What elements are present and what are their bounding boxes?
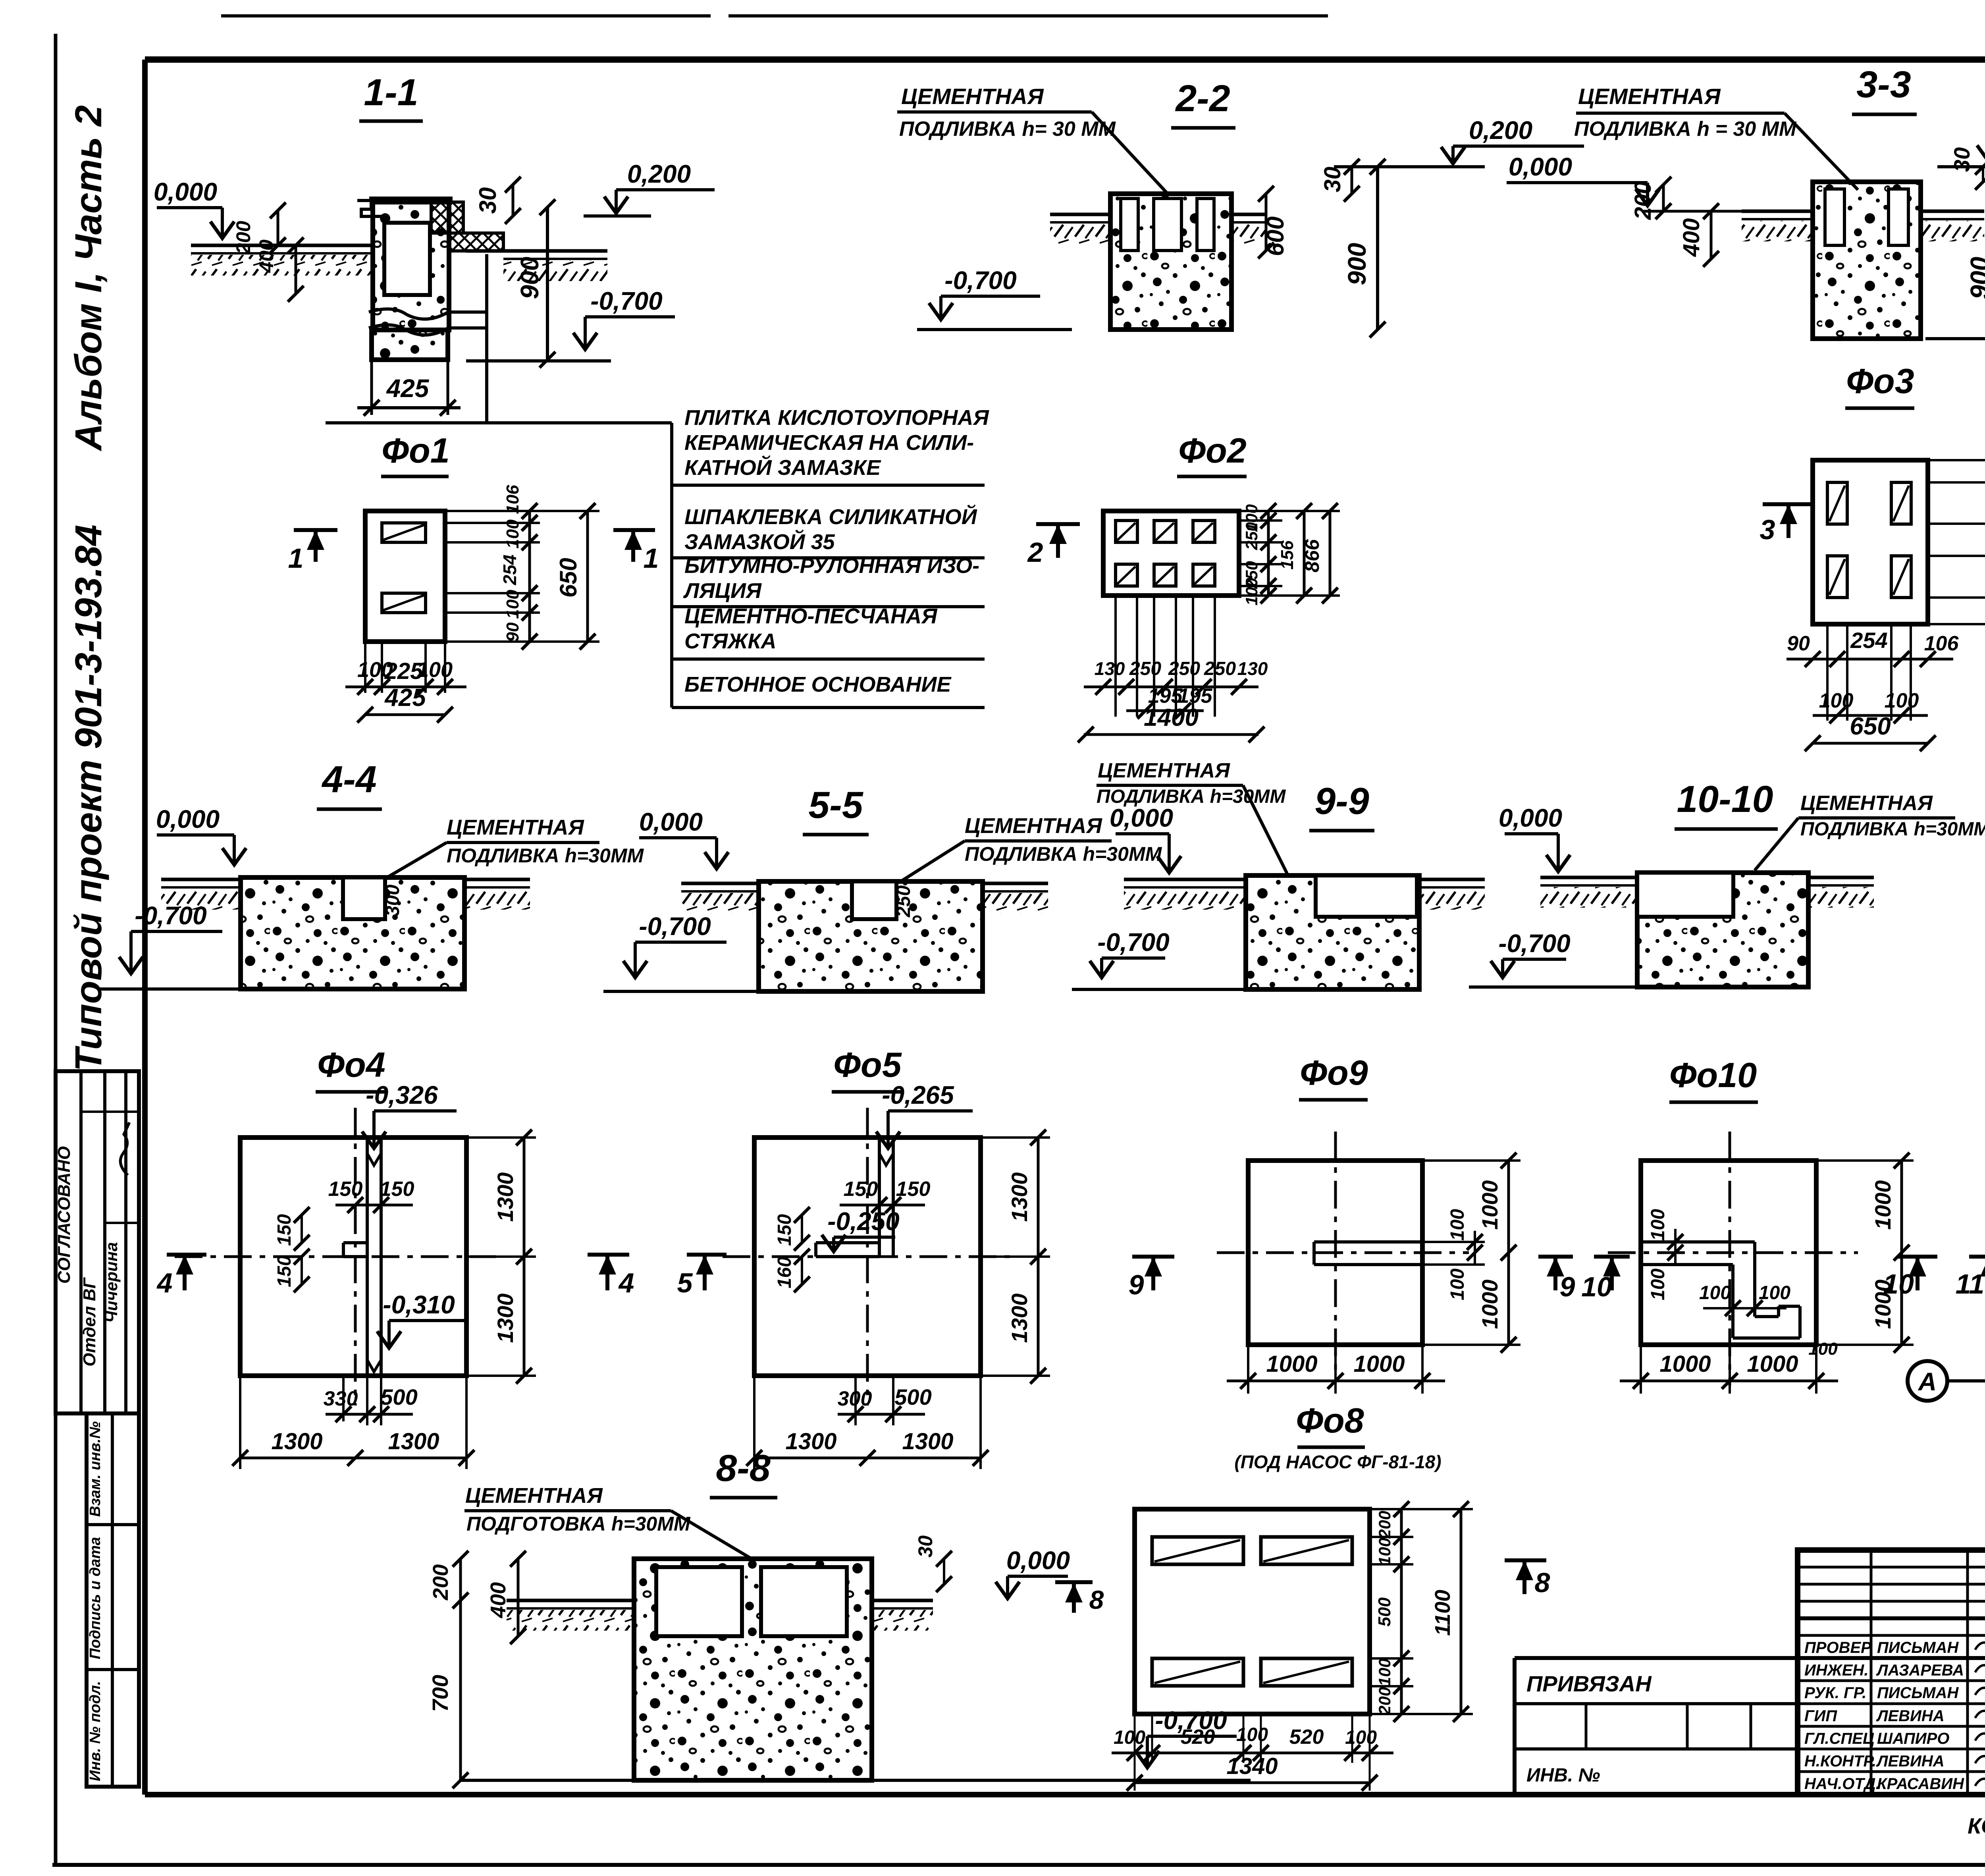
- svg-text:10: 10: [1581, 1271, 1612, 1302]
- svg-text:1000: 1000: [1477, 1280, 1502, 1329]
- svg-text:Фо5: Фо5: [833, 1045, 902, 1084]
- svg-text:100: 100: [1345, 1727, 1377, 1748]
- svg-text:650: 650: [555, 558, 582, 598]
- svg-text:Фо4: Фо4: [317, 1045, 385, 1084]
- svg-text:КРАСАВИН: КРАСАВИН: [1877, 1775, 1964, 1793]
- svg-text:8: 8: [1535, 1567, 1550, 1598]
- svg-text:9: 9: [1129, 1269, 1144, 1300]
- svg-text:1300: 1300: [1007, 1172, 1032, 1222]
- svg-text:90: 90: [503, 622, 522, 642]
- svg-text:250: 250: [893, 885, 914, 918]
- svg-text:ШПАКЛЕВКА СИЛИКАТНОЙ: ШПАКЛЕВКА СИЛИКАТНОЙ: [684, 504, 977, 529]
- svg-text:300: 300: [382, 885, 403, 916]
- svg-text:ЦЕМЕНТНАЯ: ЦЕМЕНТНАЯ: [1098, 759, 1230, 782]
- svg-text:254: 254: [1850, 628, 1887, 653]
- svg-text:3-3: 3-3: [1856, 64, 1911, 106]
- svg-text:ПИСЬМАН: ПИСЬМАН: [1877, 1639, 1959, 1656]
- svg-text:-0,700: -0,700: [1097, 928, 1169, 956]
- svg-text:БИТУМНО-РУЛОННАЯ ИЗО-: БИТУМНО-РУЛОННАЯ ИЗО-: [684, 554, 979, 578]
- svg-text:900: 900: [1965, 257, 1985, 299]
- svg-text:Альбом I, Часть 2: Альбом I, Часть 2: [67, 105, 110, 451]
- svg-text:Фо9: Фо9: [1300, 1053, 1368, 1092]
- svg-text:1400: 1400: [1144, 704, 1199, 731]
- svg-text:СОГЛАСОВАНО: СОГЛАСОВАНО: [54, 1146, 74, 1284]
- svg-text:150: 150: [274, 1255, 295, 1287]
- svg-text:30: 30: [914, 1535, 937, 1558]
- svg-text:ПОДЛИВКА h=30ММ: ПОДЛИВКА h=30ММ: [447, 844, 644, 867]
- svg-text:100: 100: [1114, 1727, 1145, 1748]
- svg-text:ЦЕМЕНТНАЯ: ЦЕМЕНТНАЯ: [901, 84, 1044, 109]
- svg-text:650: 650: [1850, 713, 1891, 740]
- svg-text:200: 200: [232, 221, 254, 255]
- svg-text:100: 100: [503, 519, 522, 549]
- svg-text:100: 100: [1885, 689, 1919, 712]
- svg-text:10: 10: [1883, 1269, 1914, 1300]
- svg-text:1340: 1340: [1226, 1753, 1278, 1779]
- svg-text:РУК. ГР.: РУК. ГР.: [1804, 1684, 1866, 1702]
- svg-text:А: А: [1918, 1367, 1937, 1396]
- svg-text:5-5: 5-5: [808, 784, 863, 826]
- svg-text:-0,700: -0,700: [944, 266, 1016, 295]
- svg-text:ПОДЛИВКА h = 30 ММ: ПОДЛИВКА h = 30 ММ: [1574, 118, 1797, 141]
- svg-text:130: 130: [1095, 658, 1125, 679]
- svg-text:ЛЕВИНА: ЛЕВИНА: [1876, 1753, 1945, 1770]
- svg-text:5: 5: [677, 1267, 693, 1298]
- svg-text:0,200: 0,200: [627, 160, 691, 188]
- svg-text:НАЧ.ОТД.: НАЧ.ОТД.: [1804, 1775, 1880, 1793]
- svg-text:-0,700: -0,700: [1498, 929, 1570, 958]
- svg-text:ПИСЬМАН: ПИСЬМАН: [1877, 1684, 1959, 1702]
- svg-text:Фо2: Фо2: [1178, 431, 1246, 470]
- svg-text:100: 100: [1236, 1724, 1268, 1745]
- svg-text:400: 400: [1679, 218, 1704, 257]
- svg-text:Взам. инв.№: Взам. инв.№: [87, 1421, 104, 1517]
- svg-text:900: 900: [515, 257, 544, 299]
- svg-text:0,000: 0,000: [1509, 152, 1572, 181]
- svg-text:0,000: 0,000: [156, 805, 220, 833]
- svg-text:100: 100: [1447, 1269, 1468, 1300]
- svg-text:ЛЕВИНА: ЛЕВИНА: [1876, 1707, 1945, 1725]
- svg-text:30: 30: [1949, 147, 1974, 172]
- svg-text:200: 200: [429, 1564, 453, 1600]
- svg-text:500: 500: [1375, 1597, 1394, 1627]
- svg-text:9-9: 9-9: [1314, 780, 1369, 822]
- svg-text:СТЯЖКА: СТЯЖКА: [684, 629, 777, 653]
- svg-text:Фо8: Фо8: [1296, 1401, 1364, 1440]
- svg-text:700: 700: [428, 1675, 453, 1712]
- svg-text:400: 400: [486, 1582, 510, 1618]
- svg-text:1100: 1100: [1431, 1590, 1455, 1636]
- svg-text:ПРОВЕР: ПРОВЕР: [1804, 1639, 1871, 1656]
- svg-text:-0,326: -0,326: [366, 1081, 438, 1109]
- svg-text:0,000: 0,000: [1006, 1546, 1070, 1575]
- svg-text:1300: 1300: [388, 1429, 439, 1454]
- svg-text:250: 250: [1168, 658, 1200, 679]
- svg-text:100: 100: [1648, 1269, 1669, 1300]
- svg-text:ЦЕМЕНТНАЯ: ЦЕМЕНТНАЯ: [447, 816, 584, 839]
- svg-text:1000: 1000: [1266, 1351, 1317, 1377]
- svg-text:ЛАЗАРЕВА: ЛАЗАРЕВА: [1876, 1662, 1964, 1679]
- svg-text:3: 3: [1760, 514, 1775, 545]
- svg-text:1300: 1300: [785, 1429, 836, 1454]
- svg-text:200: 200: [1630, 181, 1656, 220]
- svg-text:30: 30: [1320, 167, 1345, 193]
- svg-text:ЦЕМЕНТНАЯ: ЦЕМЕНТНАЯ: [965, 814, 1102, 838]
- svg-text:-0,310: -0,310: [383, 1290, 455, 1319]
- svg-text:254: 254: [499, 555, 520, 586]
- svg-text:156: 156: [1278, 540, 1297, 570]
- svg-text:250: 250: [1129, 658, 1161, 679]
- svg-text:Подпись и дата: Подпись и дата: [87, 1537, 104, 1659]
- svg-text:Отдел ВГ: Отдел ВГ: [80, 1277, 99, 1366]
- svg-text:100: 100: [1819, 689, 1854, 712]
- svg-text:300: 300: [838, 1387, 872, 1410]
- svg-text:100: 100: [1808, 1339, 1838, 1359]
- svg-text:425: 425: [386, 374, 430, 403]
- svg-text:4: 4: [618, 1267, 634, 1298]
- svg-text:150: 150: [774, 1214, 795, 1246]
- svg-text:866: 866: [1301, 539, 1323, 573]
- svg-text:250: 250: [1242, 522, 1261, 550]
- svg-text:-0,265: -0,265: [882, 1081, 954, 1109]
- svg-text:ПЛИТКА КИСЛОТОУПОРНАЯ: ПЛИТКА КИСЛОТОУПОРНАЯ: [684, 406, 989, 430]
- svg-text:0,000: 0,000: [1110, 804, 1173, 832]
- svg-text:520: 520: [1289, 1726, 1324, 1749]
- svg-text:ЦЕМЕНТНАЯ: ЦЕМЕНТНАЯ: [1578, 84, 1721, 109]
- svg-text:100: 100: [417, 658, 453, 682]
- svg-text:-0,700: -0,700: [135, 901, 206, 930]
- svg-text:330: 330: [324, 1387, 358, 1410]
- svg-text:250: 250: [1204, 658, 1236, 679]
- svg-text:ИНВ. №: ИНВ. №: [1526, 1765, 1600, 1786]
- svg-text:ПОДЛИВКА h=30ММ: ПОДЛИВКА h=30ММ: [965, 843, 1162, 865]
- svg-text:100: 100: [1648, 1209, 1669, 1241]
- svg-text:150: 150: [328, 1178, 363, 1201]
- svg-text:-0,700: -0,700: [590, 287, 662, 315]
- svg-text:100: 100: [1375, 1658, 1394, 1686]
- svg-text:100: 100: [1699, 1282, 1731, 1303]
- svg-text:2-2: 2-2: [1175, 77, 1230, 120]
- svg-text:ИНЖЕН.: ИНЖЕН.: [1804, 1662, 1868, 1679]
- svg-text:0,200: 0,200: [1469, 116, 1532, 145]
- svg-text:ЦЕМЕНТНО-ПЕСЧАНАЯ: ЦЕМЕНТНО-ПЕСЧАНАЯ: [684, 604, 938, 628]
- svg-text:0,000: 0,000: [639, 808, 703, 836]
- svg-text:ЦЕМЕНТНАЯ: ЦЕМЕНТНАЯ: [465, 1484, 603, 1508]
- svg-text:11: 11: [1956, 1269, 1985, 1300]
- svg-text:150: 150: [380, 1178, 414, 1201]
- svg-text:90: 90: [1787, 632, 1810, 655]
- svg-text:10-10: 10-10: [1677, 778, 1773, 820]
- svg-text:1000: 1000: [1353, 1351, 1405, 1377]
- svg-text:1000: 1000: [1477, 1180, 1502, 1230]
- svg-text:1300: 1300: [1007, 1294, 1032, 1343]
- svg-text:9: 9: [1560, 1271, 1575, 1302]
- svg-text:100: 100: [1375, 1538, 1394, 1566]
- svg-text:106: 106: [503, 485, 522, 514]
- svg-text:150: 150: [896, 1178, 931, 1201]
- svg-text:ГИП: ГИП: [1804, 1707, 1837, 1725]
- svg-text:600: 600: [1262, 216, 1289, 256]
- svg-text:1000: 1000: [1870, 1180, 1895, 1230]
- svg-text:100: 100: [503, 590, 522, 619]
- svg-text:ПОДЛИВКА h= 30 ММ: ПОДЛИВКА h= 30 ММ: [899, 118, 1116, 141]
- svg-text:1-1: 1-1: [364, 71, 418, 114]
- svg-text:100: 100: [1242, 578, 1261, 605]
- svg-text:ЛЯЦИЯ: ЛЯЦИЯ: [683, 579, 762, 603]
- svg-text:1300: 1300: [271, 1429, 322, 1454]
- svg-text:520: 520: [1181, 1726, 1215, 1749]
- svg-text:-0,700: -0,700: [639, 912, 711, 941]
- svg-text:0,000: 0,000: [1499, 804, 1562, 832]
- svg-text:425: 425: [384, 684, 426, 711]
- svg-text:1: 1: [644, 543, 659, 574]
- svg-text:900: 900: [1343, 243, 1371, 285]
- svg-text:1000: 1000: [1747, 1351, 1798, 1377]
- svg-text:Фо1: Фо1: [382, 431, 449, 470]
- svg-text:Фо3: Фо3: [1846, 361, 1914, 401]
- svg-text:Инв. № подл.: Инв. № подл.: [87, 1681, 104, 1782]
- svg-text:ЗАМАЗКОЙ 35: ЗАМАЗКОЙ 35: [684, 529, 835, 554]
- svg-text:400: 400: [255, 239, 278, 273]
- svg-text:Чичерина: Чичерина: [102, 1242, 121, 1323]
- svg-text:200: 200: [1375, 1511, 1394, 1539]
- svg-text:ЦЕМЕНТНАЯ: ЦЕМЕНТНАЯ: [1800, 792, 1933, 815]
- svg-text:30: 30: [474, 187, 501, 214]
- svg-text:150: 150: [274, 1214, 295, 1246]
- svg-text:8-8: 8-8: [716, 1447, 770, 1489]
- svg-text:4: 4: [156, 1267, 173, 1298]
- svg-text:БЕТОННОЕ ОСНОВАНИЕ: БЕТОННОЕ ОСНОВАНИЕ: [684, 673, 952, 696]
- svg-text:100: 100: [1447, 1209, 1468, 1241]
- svg-text:130: 130: [1237, 658, 1268, 679]
- svg-text:Н.КОНТР.: Н.КОНТР.: [1804, 1753, 1876, 1770]
- svg-text:1000: 1000: [1659, 1351, 1711, 1377]
- svg-text:1: 1: [288, 543, 304, 574]
- svg-text:100: 100: [1759, 1282, 1790, 1303]
- svg-text:150: 150: [844, 1178, 878, 1201]
- svg-text:500: 500: [380, 1384, 417, 1409]
- svg-text:КОПИРОВАЛ ЕРЕМЧЕНКО: КОПИРОВАЛ ЕРЕМЧЕНКО: [1968, 1813, 1985, 1838]
- svg-text:200: 200: [1375, 1687, 1394, 1715]
- svg-text:1300: 1300: [493, 1172, 518, 1222]
- svg-text:1300: 1300: [493, 1294, 518, 1343]
- svg-text:(ПОД НАСОС ФГ-81-18): (ПОД НАСОС ФГ-81-18): [1234, 1452, 1441, 1472]
- svg-text:ПРИВЯЗАН: ПРИВЯЗАН: [1526, 1671, 1652, 1696]
- svg-text:160: 160: [774, 1257, 795, 1288]
- svg-text:ПОДГОТОВКА h=30ММ: ПОДГОТОВКА h=30ММ: [466, 1513, 691, 1535]
- svg-text:ПОДЛИВКА h=30ММ: ПОДЛИВКА h=30ММ: [1800, 819, 1985, 840]
- svg-text:КАТНОЙ ЗАМАЗКЕ: КАТНОЙ ЗАМАЗКЕ: [684, 455, 881, 480]
- svg-text:0,000: 0,000: [154, 177, 217, 206]
- svg-text:Фо10: Фо10: [1669, 1055, 1757, 1095]
- svg-text:ШАПИРО: ШАПИРО: [1877, 1730, 1949, 1747]
- svg-text:500: 500: [894, 1384, 931, 1409]
- svg-text:4-4: 4-4: [321, 758, 376, 800]
- svg-text:2: 2: [1027, 537, 1043, 568]
- svg-text:8: 8: [1089, 1585, 1104, 1614]
- svg-text:1300: 1300: [902, 1429, 953, 1454]
- svg-text:ГЛ.СПЕЦ: ГЛ.СПЕЦ: [1804, 1730, 1874, 1747]
- svg-text:106: 106: [1924, 632, 1959, 655]
- svg-text:КЕРАМИЧЕСКАЯ НА СИЛИ-: КЕРАМИЧЕСКАЯ НА СИЛИ-: [684, 431, 974, 455]
